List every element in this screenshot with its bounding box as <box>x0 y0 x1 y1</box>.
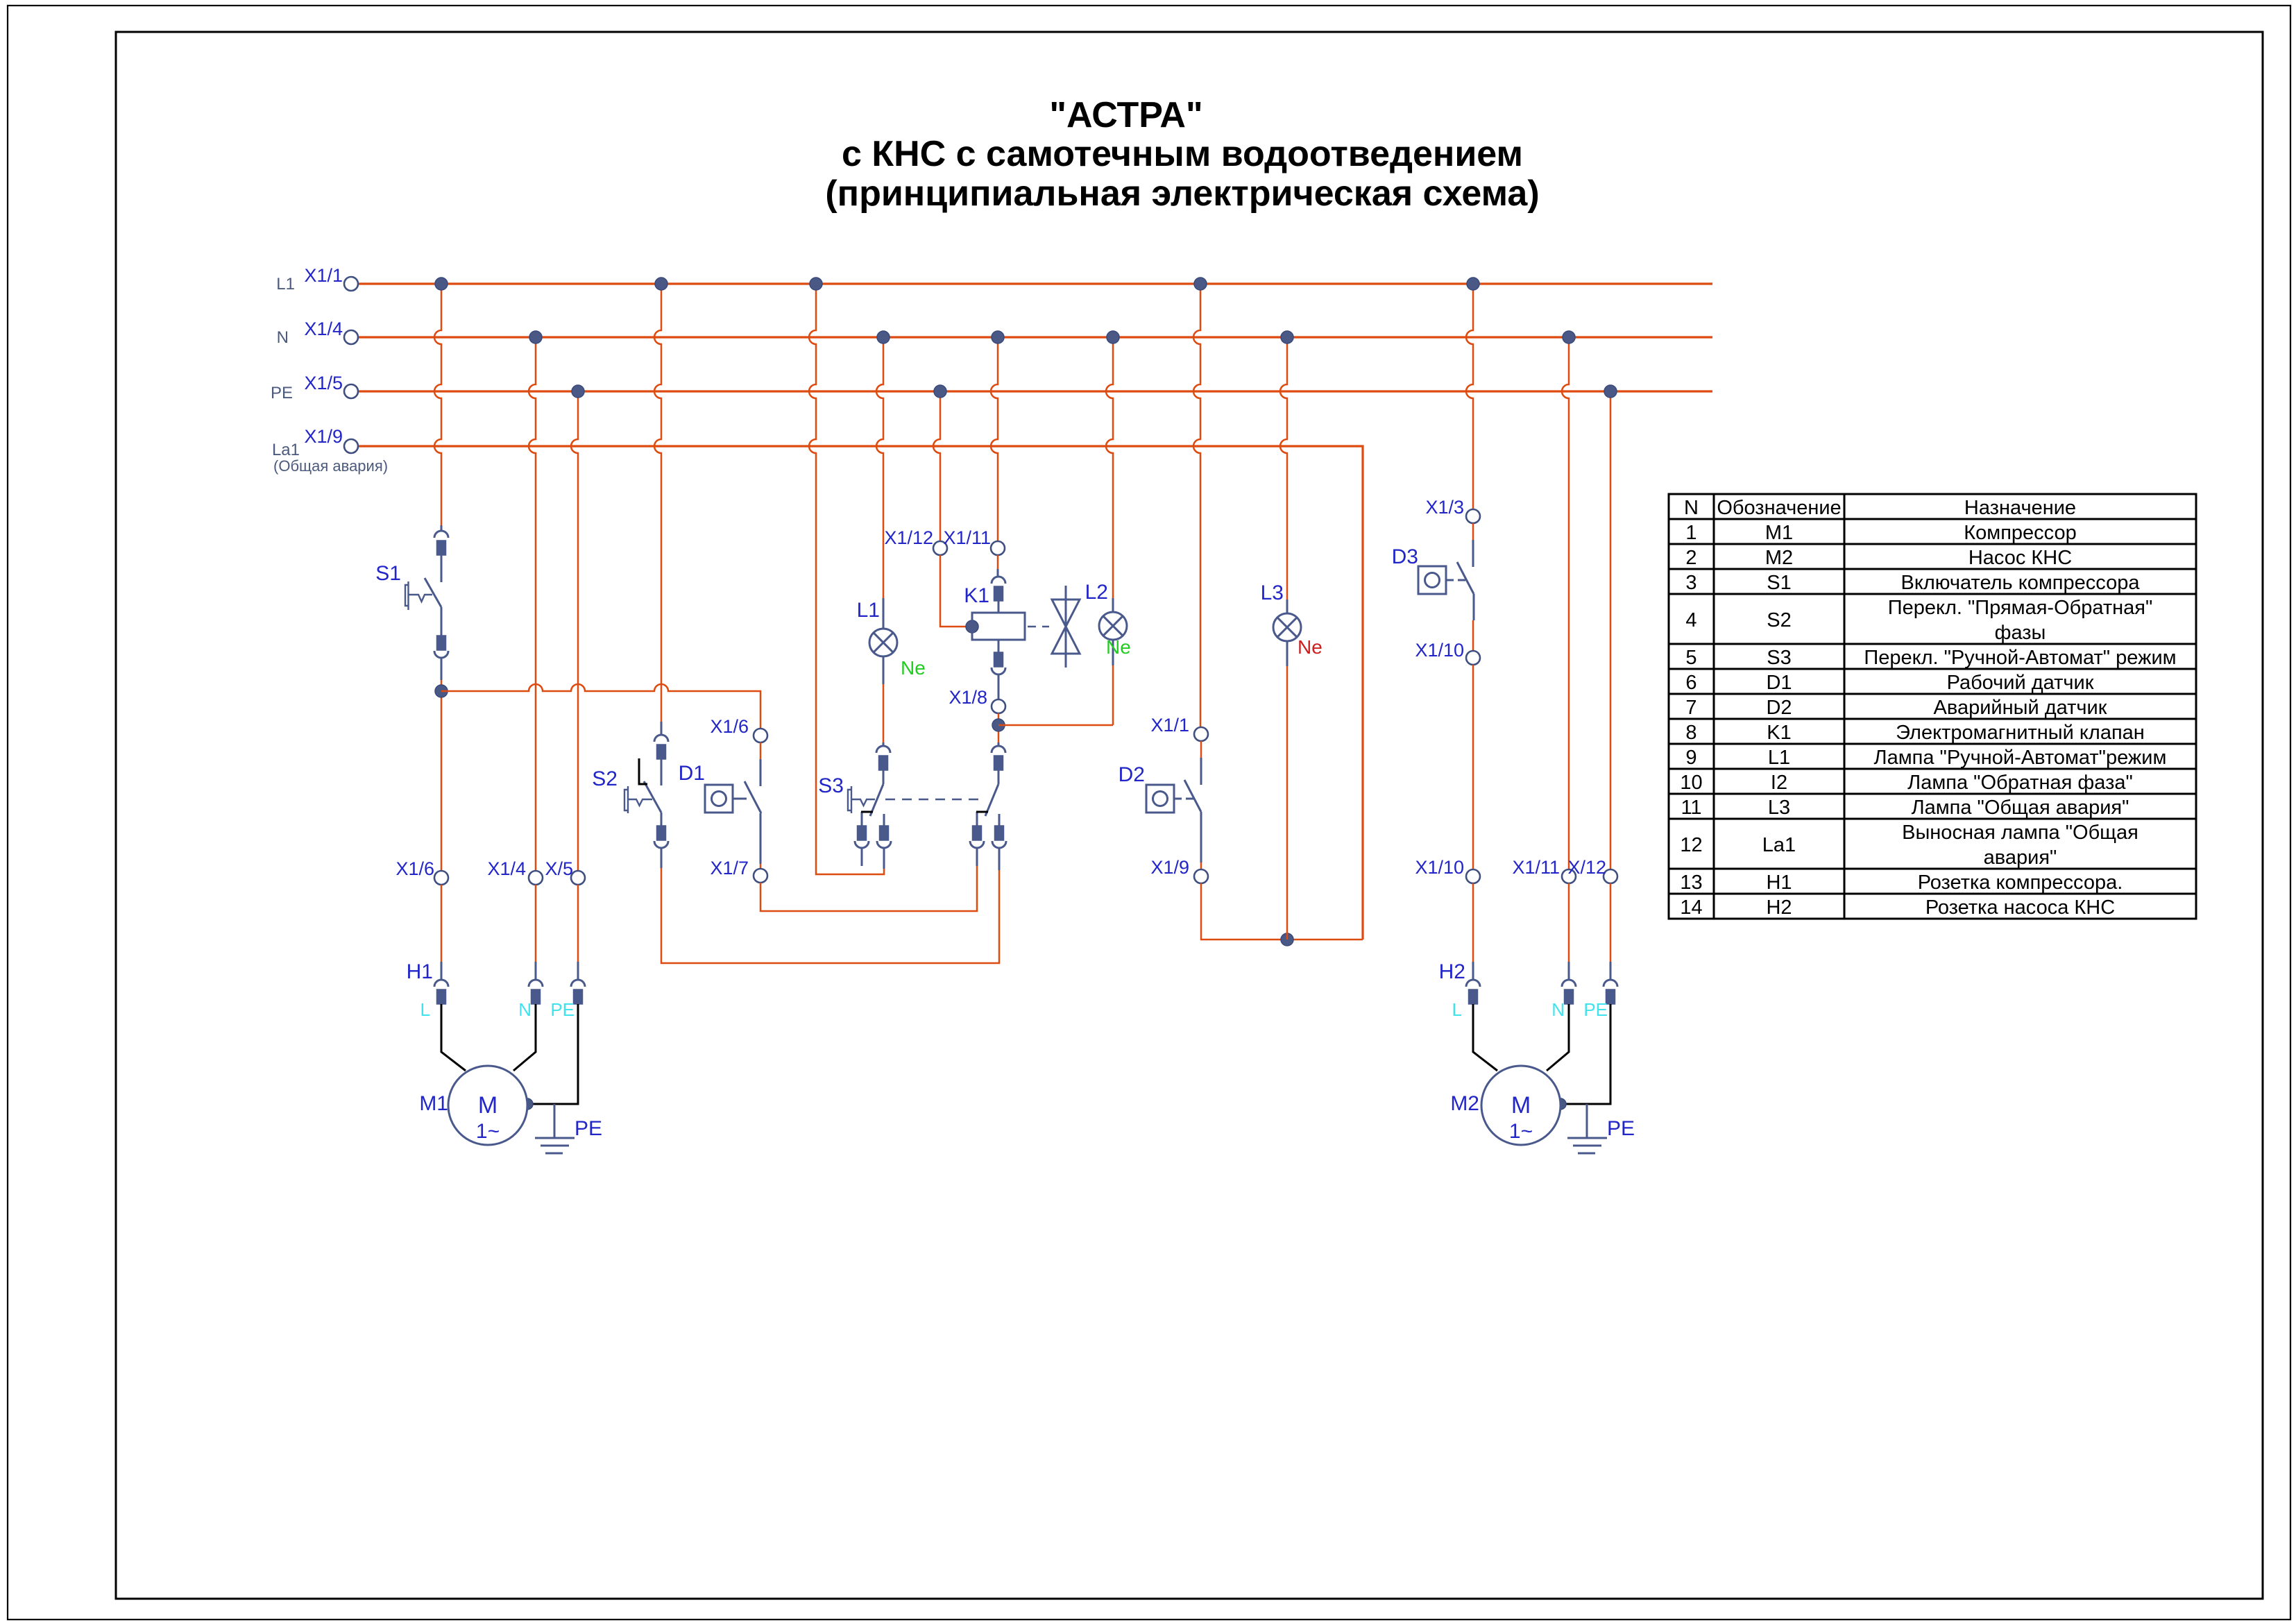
node N H2 <box>1563 331 1575 343</box>
svg-text:L1: L1 <box>857 599 880 622</box>
svg-text:X1/6: X1/6 <box>396 858 434 879</box>
svg-text:H1: H1 <box>1766 872 1792 894</box>
bus La1 <box>357 446 1363 940</box>
socket H1 pin PE <box>571 962 585 1004</box>
svg-text:X1/12: X1/12 <box>884 527 933 548</box>
label H1 <box>407 960 433 983</box>
svg-text:4: 4 <box>1685 609 1697 631</box>
svg-text:M: M <box>1511 1092 1531 1119</box>
wire H1 L to M1 <box>441 1004 466 1071</box>
wire X1/7 to S3 pin1 <box>760 866 977 911</box>
lamp L3 <box>1273 600 1301 666</box>
node N H1 <box>529 331 542 343</box>
wire H1 PE to M1 <box>527 1004 578 1104</box>
wire X1/6 to H1 <box>441 885 443 962</box>
label X1/5 <box>304 373 343 393</box>
svg-text:PE: PE <box>575 1117 602 1140</box>
svg-text:Розетка компрессора.: Розетка компрессора. <box>1918 872 2123 894</box>
title line 2 <box>842 134 1523 174</box>
svg-text:X1/4: X1/4 <box>487 858 526 879</box>
svg-text:11: 11 <box>1681 797 1701 819</box>
wire L1 to X1/3 <box>1466 284 1473 509</box>
wire H2 L to M2 <box>1473 1004 1497 1071</box>
label H2 PE <box>1583 999 1608 1020</box>
svg-text:X1/1: X1/1 <box>1150 715 1189 736</box>
svg-text:PE: PE <box>1583 999 1608 1020</box>
bus N <box>357 336 1712 338</box>
label X1/10 lower <box>1415 857 1464 878</box>
label M2 ground PE <box>1607 1117 1635 1140</box>
label H2 N <box>1551 999 1565 1020</box>
svg-text:7: 7 <box>1685 697 1697 719</box>
svg-text:M1: M1 <box>1765 522 1793 544</box>
svg-text:Компрессор: Компрессор <box>1964 522 2077 544</box>
node PE X1/12 <box>934 385 946 398</box>
node L1 S2 <box>655 278 667 290</box>
label H2 <box>1439 960 1465 983</box>
svg-text:PE: PE <box>550 999 575 1020</box>
svg-text:D1: D1 <box>1766 672 1792 694</box>
label X1/6 <box>710 716 749 737</box>
label X1/1 <box>304 265 343 286</box>
terminal X1/8 <box>992 699 1005 713</box>
wire N to H1-N <box>529 337 536 871</box>
svg-text:авария": авария" <box>1984 847 2057 869</box>
S2 NC mark <box>639 758 647 784</box>
terminal X1/4 mid <box>529 871 543 885</box>
svg-text:M: M <box>478 1092 498 1119</box>
wire D1 to X1/7 <box>760 864 762 869</box>
svg-text:2: 2 <box>1685 547 1697 569</box>
socket H1 pin N <box>529 962 543 1004</box>
svg-text:X1/11: X1/11 <box>943 527 991 548</box>
svg-text:(Общая авария): (Общая авария) <box>273 457 388 475</box>
label (Общая авария) <box>273 457 388 475</box>
label Ne L1 <box>901 657 926 679</box>
svg-text:H1: H1 <box>407 960 433 983</box>
svg-text:PE: PE <box>1607 1117 1635 1140</box>
label H2 L <box>1452 999 1462 1020</box>
node L3 bottom <box>1281 933 1293 946</box>
ground M2 <box>1567 1104 1607 1153</box>
label X/5 <box>545 858 573 879</box>
label D1 <box>679 762 705 785</box>
terminal X1/9 <box>344 439 358 453</box>
wire X1/12 to K1 <box>940 555 968 627</box>
wire X1/11 to K1 <box>997 555 999 569</box>
wire L1 to S2 <box>654 284 661 722</box>
label L2 <box>1085 581 1108 604</box>
svg-text:Лампа "Ручной-Автомат"режим: Лампа "Ручной-Автомат"режим <box>1874 747 2167 769</box>
switch S1 <box>405 525 448 680</box>
label PE <box>271 384 293 402</box>
S3 right contact tick <box>976 811 988 813</box>
label X1/6 left <box>396 858 434 879</box>
switch S2 <box>624 722 668 868</box>
svg-text:с КНС с самотечным водоотведен: с КНС с самотечным водоотведением <box>842 134 1523 174</box>
svg-text:5: 5 <box>1685 647 1697 669</box>
wire X/5 to H1 <box>577 885 579 962</box>
svg-text:X1/9: X1/9 <box>304 426 343 447</box>
label Ne L2 <box>1106 636 1131 658</box>
node PE H1 <box>572 385 584 398</box>
svg-text:L3: L3 <box>1261 581 1284 604</box>
svg-text:S1: S1 <box>1767 572 1791 594</box>
sensor D1 <box>705 742 761 864</box>
svg-text:X1/5: X1/5 <box>304 373 343 393</box>
wire PE to X1/12 <box>933 391 940 541</box>
svg-text:D3: D3 <box>1392 545 1418 568</box>
node N L2 <box>1107 331 1119 343</box>
control rail <box>441 684 760 729</box>
terminal X1/1 <box>1194 727 1208 741</box>
svg-text:10: 10 <box>1680 772 1702 794</box>
svg-text:"АСТРА": "АСТРА" <box>1049 95 1202 135</box>
svg-text:X1/10: X1/10 <box>1415 857 1464 878</box>
svg-text:Выносная лампа "Общая: Выносная лампа "Общая <box>1902 822 2138 844</box>
label X1/11 <box>943 527 991 548</box>
svg-text:12: 12 <box>1680 834 1702 856</box>
wire X1/10 down <box>1472 665 1474 869</box>
wire X/12 to H2 <box>1610 883 1612 962</box>
terminal X1/12 <box>933 541 947 555</box>
terminal X1/3 <box>1466 509 1480 523</box>
node PE H2 <box>1604 385 1617 398</box>
svg-text:(принципиальная электрическая: (принципиальная электрическая схема) <box>825 173 1539 214</box>
wire X1/8 junction <box>998 713 1000 742</box>
label X1/1 <box>1150 715 1189 736</box>
wire L1 to S1 <box>434 284 441 525</box>
svg-text:Лампа "Обратная фаза": Лампа "Обратная фаза" <box>1907 772 2133 794</box>
valve Y1 <box>1052 586 1080 668</box>
svg-text:1~: 1~ <box>1509 1120 1533 1143</box>
svg-text:S3: S3 <box>818 774 844 797</box>
wire L1 lamp to S3 <box>883 684 885 742</box>
terminal X1/11 <box>991 541 1005 555</box>
terminal X1/9 mid <box>1194 869 1208 883</box>
node S1 rail <box>435 685 448 697</box>
svg-text:6: 6 <box>1685 672 1697 694</box>
svg-text:D2: D2 <box>1766 697 1792 719</box>
svg-text:L: L <box>1452 999 1462 1020</box>
svg-text:X1/6: X1/6 <box>710 716 749 737</box>
svg-text:D1: D1 <box>679 762 705 785</box>
svg-text:Ne: Ne <box>1298 636 1323 658</box>
svg-text:Включатель компрессора: Включатель компрессора <box>1901 572 2141 594</box>
svg-text:I2: I2 <box>1771 772 1787 794</box>
wire N to L3 <box>1280 337 1287 600</box>
wire X1/11 to H2 <box>1568 883 1570 962</box>
terminal X1/5 <box>344 384 358 398</box>
wire N to L1 lamp <box>876 337 883 598</box>
svg-text:Розетка насоса КНС: Розетка насоса КНС <box>1925 897 2115 919</box>
wire H1 N to M1 <box>513 1004 536 1071</box>
svg-text:Назначение: Назначение <box>1964 497 2076 519</box>
wire H2 N to M2 <box>1547 1004 1569 1071</box>
label X1/4 <box>304 318 343 339</box>
svg-text:Электромагнитный клапан: Электромагнитный клапан <box>1896 722 2145 744</box>
svg-text:M2: M2 <box>1765 547 1793 569</box>
svg-text:N: N <box>1684 497 1699 519</box>
socket H2 pin N <box>1562 962 1576 1004</box>
svg-text:D2: D2 <box>1119 763 1145 786</box>
svg-text:La1: La1 <box>272 441 300 459</box>
wire L3 down <box>1286 666 1289 940</box>
svg-text:M1: M1 <box>419 1092 448 1115</box>
node N L1lamp <box>877 331 890 343</box>
svg-text:L: L <box>420 999 430 1020</box>
ground M1 <box>535 1104 575 1153</box>
svg-text:Аварийный датчик: Аварийный датчик <box>1934 697 2107 719</box>
socket H2 pin PE <box>1604 962 1617 1004</box>
svg-text:X/12: X/12 <box>1567 857 1606 878</box>
svg-text:N: N <box>518 999 532 1020</box>
S3 left contact tick <box>861 811 873 813</box>
terminal X1/4 <box>344 330 358 344</box>
terminal X1/7 <box>754 869 767 883</box>
label N <box>277 328 289 347</box>
wire N to L2 <box>1106 337 1113 598</box>
socket H2 pin L <box>1466 962 1480 1004</box>
svg-text:13: 13 <box>1680 872 1702 894</box>
node M1 PE <box>522 1098 533 1110</box>
label M1 <box>419 1092 448 1115</box>
label D2 <box>1119 763 1145 786</box>
label X1/9 mid <box>1150 857 1189 878</box>
svg-text:1~: 1~ <box>476 1120 500 1143</box>
svg-text:3: 3 <box>1685 572 1697 594</box>
label H1 N <box>518 999 532 1020</box>
label M1 ground PE <box>575 1117 602 1140</box>
terminal X/5 <box>571 871 585 885</box>
svg-text:X1/8: X1/8 <box>949 687 987 708</box>
wire PE to H1-PE <box>571 391 578 871</box>
svg-text:L3: L3 <box>1768 797 1790 819</box>
svg-text:PE: PE <box>271 384 293 402</box>
svg-text:фазы: фазы <box>1995 622 2046 644</box>
label K1 <box>964 584 989 607</box>
bus PE <box>357 390 1712 392</box>
svg-text:Лампа "Общая авария": Лампа "Общая авария" <box>1912 797 2129 819</box>
table text <box>1680 497 2176 919</box>
sensor D2 <box>1146 741 1201 863</box>
motor M1 <box>448 1066 527 1145</box>
svg-text:N: N <box>277 328 289 347</box>
svg-text:X1/9: X1/9 <box>1150 857 1189 878</box>
wire L2 to X1/8 <box>1112 665 1114 725</box>
label H1 L <box>420 999 430 1020</box>
svg-text:H2: H2 <box>1439 960 1465 983</box>
svg-text:K1: K1 <box>964 584 989 607</box>
terminal X1/10 upper <box>1466 651 1480 665</box>
label S3 <box>818 774 844 797</box>
table grid <box>1669 494 2196 919</box>
node N X1/11 <box>992 331 1004 343</box>
label X1/4 mid <box>487 858 526 879</box>
wire L1 to X1/1 <box>1193 284 1200 727</box>
svg-text:La1: La1 <box>1762 834 1796 856</box>
node L1-S1 <box>435 278 448 290</box>
svg-text:M2: M2 <box>1450 1092 1479 1115</box>
wire PE to H2-PE <box>1610 391 1612 869</box>
node L1 S3 <box>810 278 822 290</box>
terminal X/12 lower <box>1604 869 1617 883</box>
label Ne L3 <box>1298 636 1323 658</box>
svg-text:9: 9 <box>1685 747 1697 769</box>
terminal X1/1 <box>344 277 358 291</box>
title line 3 <box>825 173 1539 214</box>
relay coil K1 <box>972 569 1025 699</box>
S3 link dashed <box>885 799 984 801</box>
svg-text:L2: L2 <box>1085 581 1108 604</box>
svg-text:Ne: Ne <box>1106 636 1131 658</box>
motor M2 <box>1481 1066 1561 1145</box>
svg-text:S3: S3 <box>1767 647 1791 669</box>
svg-text:1: 1 <box>1685 522 1697 544</box>
node N L3 <box>1281 331 1293 343</box>
svg-text:X1/10: X1/10 <box>1415 640 1464 661</box>
svg-text:X1/11: X1/11 <box>1512 857 1560 878</box>
label X1/7 <box>710 858 749 878</box>
label X1/3 <box>1425 497 1464 518</box>
svg-text:Насос КНС: Насос КНС <box>1968 547 2072 569</box>
wire X1/8 to L2 <box>998 724 1113 726</box>
svg-text:X1/3: X1/3 <box>1425 497 1464 518</box>
label S2 <box>592 767 618 790</box>
label X1/12 <box>884 527 933 548</box>
node L1 D2 <box>1194 278 1207 290</box>
switch S3 left pole <box>848 742 891 869</box>
wire X1/4 to H1 <box>535 885 537 962</box>
wire D3 to X1/10 <box>1472 620 1474 651</box>
label S1 <box>375 562 401 585</box>
wire X1/10 to H2 <box>1472 883 1474 962</box>
wire H2 PE to M2 <box>1561 1004 1610 1104</box>
lamp L1 <box>869 598 897 684</box>
svg-text:S2: S2 <box>1767 609 1791 631</box>
svg-text:Перекл. "Ручной-Автомат" режим: Перекл. "Ручной-Автомат" режим <box>1864 647 2176 669</box>
valve dashes <box>1028 626 1049 628</box>
svg-text:X1/7: X1/7 <box>710 858 749 878</box>
wire X1/9 to La1 <box>1201 883 1363 940</box>
svg-text:K1: K1 <box>1767 722 1791 744</box>
title line 1 <box>1049 95 1202 135</box>
label X1/9 <box>304 426 343 447</box>
svg-text:S1: S1 <box>375 562 401 585</box>
terminal X1/6 <box>754 729 767 742</box>
node K1 left <box>966 620 978 633</box>
terminal X1/11 lower <box>1562 869 1576 883</box>
label X1/8 <box>949 687 987 708</box>
label M2 <box>1450 1092 1479 1115</box>
svg-text:Рабочий датчик: Рабочий датчик <box>1947 672 2094 694</box>
svg-text:14: 14 <box>1680 897 1702 919</box>
wire N to H2-N <box>1562 337 1569 869</box>
lamp L2 <box>1099 598 1127 665</box>
node L1 D3 <box>1467 278 1479 290</box>
svg-text:X1/1: X1/1 <box>304 265 343 286</box>
label X1/11 lower <box>1512 857 1560 878</box>
svg-text:L1: L1 <box>1768 747 1790 769</box>
svg-text:X/5: X/5 <box>545 858 573 879</box>
terminal X1/10 lower <box>1466 869 1480 883</box>
wire N to X1/11 <box>991 337 998 541</box>
node X1/8 <box>992 719 1005 731</box>
sensor D3 <box>1418 523 1474 620</box>
label La1 <box>272 441 300 459</box>
terminal X1/6 left <box>434 871 448 885</box>
svg-text:Перекл. "Прямая-Обратная": Перекл. "Прямая-Обратная" <box>1888 597 2153 619</box>
svg-text:H2: H2 <box>1766 897 1792 919</box>
bus L1 <box>357 282 1712 284</box>
label D3 <box>1392 545 1418 568</box>
svg-text:Ne: Ne <box>901 657 926 679</box>
svg-text:X1/4: X1/4 <box>304 318 343 339</box>
svg-text:L1: L1 <box>276 275 295 294</box>
wire D2 to X1/9 <box>1200 863 1202 869</box>
label H1 PE <box>550 999 575 1020</box>
label L3 <box>1261 581 1284 604</box>
wire S1 to X1/6 <box>441 680 443 871</box>
wire L1 to S3 left <box>809 284 884 874</box>
label L1 lamp <box>857 599 880 622</box>
node M2 PE <box>1555 1098 1566 1110</box>
switch S3 right pole <box>970 742 1006 870</box>
socket H1 pin L <box>434 962 448 1004</box>
svg-text:N: N <box>1551 999 1565 1020</box>
label L1 <box>276 275 295 294</box>
wire S2 to S3 pin <box>661 868 999 963</box>
svg-text:Обозначение: Обозначение <box>1717 497 1841 519</box>
svg-text:8: 8 <box>1685 722 1697 744</box>
label X1/10 upper <box>1415 640 1464 661</box>
label X/12 lower <box>1567 857 1606 878</box>
svg-text:S2: S2 <box>592 767 618 790</box>
